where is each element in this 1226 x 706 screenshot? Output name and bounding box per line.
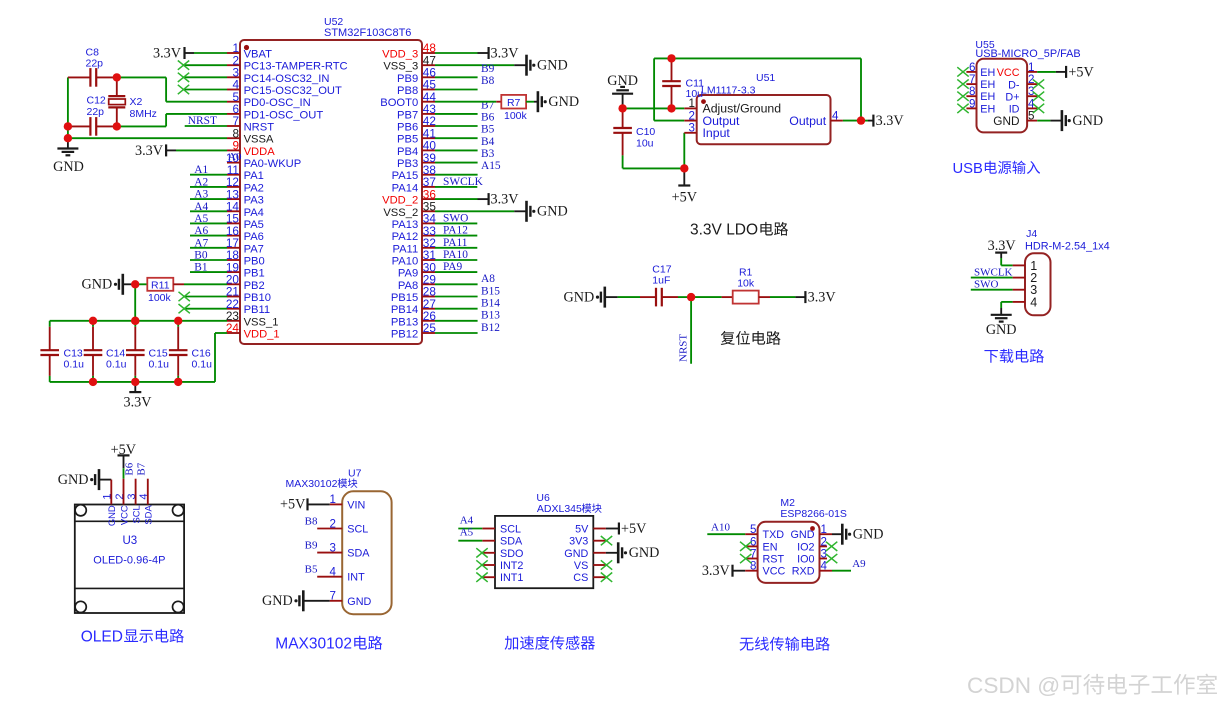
svg-text:PA4: PA4 xyxy=(244,207,264,219)
svg-text:SCL: SCL xyxy=(130,505,141,523)
svg-text:PB15: PB15 xyxy=(391,292,418,304)
svg-text:SWCLK: SWCLK xyxy=(974,266,1013,278)
svg-text:10k: 10k xyxy=(737,278,755,290)
svg-text:M2: M2 xyxy=(780,497,795,509)
svg-text:J4: J4 xyxy=(1026,228,1037,240)
svg-text:PA10: PA10 xyxy=(392,256,419,268)
svg-text:PA11: PA11 xyxy=(392,243,418,255)
svg-text:MAX30102: MAX30102 xyxy=(286,478,338,490)
svg-text:PA1: PA1 xyxy=(244,170,264,182)
svg-text:SDA: SDA xyxy=(500,536,523,548)
svg-text:A3: A3 xyxy=(194,189,208,201)
svg-text:C13: C13 xyxy=(64,347,83,359)
svg-text:GND: GND xyxy=(82,277,113,293)
svg-text:D+: D+ xyxy=(1005,91,1019,103)
svg-text:22p: 22p xyxy=(87,106,105,118)
svg-text:0.1u: 0.1u xyxy=(192,359,213,371)
svg-text:3.3V: 3.3V xyxy=(808,290,837,306)
svg-text:EN: EN xyxy=(763,541,778,553)
svg-text:B0: B0 xyxy=(194,250,208,262)
svg-text:PA2: PA2 xyxy=(244,182,264,194)
svg-text:CS: CS xyxy=(573,572,588,584)
svg-text:B8: B8 xyxy=(305,516,318,528)
svg-text:B5: B5 xyxy=(481,124,495,136)
svg-text:NRST: NRST xyxy=(244,122,275,134)
svg-text:A2: A2 xyxy=(194,176,208,188)
svg-text:PC14-OSC32_IN: PC14-OSC32_IN xyxy=(244,73,330,85)
svg-text:100k: 100k xyxy=(148,292,172,304)
svg-text:ESP8266-01S: ESP8266-01S xyxy=(780,508,847,520)
svg-text:B15: B15 xyxy=(481,285,500,297)
svg-text:USB-MICRO_5P/FAB: USB-MICRO_5P/FAB xyxy=(975,48,1080,60)
svg-text:B4: B4 xyxy=(481,136,495,148)
svg-text:B3: B3 xyxy=(481,148,495,160)
svg-text:B6: B6 xyxy=(123,462,135,475)
svg-text:GND: GND xyxy=(993,114,1019,128)
svg-text:LM1117-3.3: LM1117-3.3 xyxy=(701,85,756,97)
svg-text:SDA: SDA xyxy=(347,548,370,560)
svg-text:INT2: INT2 xyxy=(500,560,523,572)
svg-text:SWO: SWO xyxy=(443,212,468,224)
svg-text:Input: Input xyxy=(703,126,731,140)
svg-text:PA3: PA3 xyxy=(244,195,264,207)
svg-text:VDD_2: VDD_2 xyxy=(382,195,418,207)
svg-text:B14: B14 xyxy=(481,298,500,310)
svg-text:BOOT0: BOOT0 xyxy=(380,97,418,109)
svg-text:A0: A0 xyxy=(228,151,242,163)
svg-text:25: 25 xyxy=(423,321,437,335)
svg-text:GND: GND xyxy=(548,94,579,110)
svg-text:3.3V: 3.3V xyxy=(491,192,520,208)
svg-text:PB3: PB3 xyxy=(397,158,418,170)
svg-text:CSDN @: CSDN @ xyxy=(967,673,1060,698)
svg-text:PA10: PA10 xyxy=(443,249,468,261)
svg-text:PB9: PB9 xyxy=(397,73,418,85)
svg-text:PA9: PA9 xyxy=(443,261,463,273)
svg-text:PA12: PA12 xyxy=(443,225,468,237)
svg-text:PA6: PA6 xyxy=(244,231,264,243)
svg-text:7: 7 xyxy=(969,73,975,86)
svg-text:SWO: SWO xyxy=(974,279,999,291)
svg-text:PB2: PB2 xyxy=(244,280,265,292)
svg-text:GND: GND xyxy=(564,548,588,560)
svg-text:VDD_3: VDD_3 xyxy=(382,49,418,61)
svg-text:C14: C14 xyxy=(106,347,125,359)
svg-text:A6: A6 xyxy=(194,225,208,237)
svg-text:9: 9 xyxy=(969,97,975,110)
svg-text:GND: GND xyxy=(106,505,117,526)
svg-text:PB0: PB0 xyxy=(244,256,265,268)
svg-text:GND: GND xyxy=(1072,113,1103,129)
svg-text:IO0: IO0 xyxy=(797,554,814,566)
svg-text:PB11: PB11 xyxy=(244,304,271,316)
svg-text:PB5: PB5 xyxy=(397,134,418,146)
svg-text:B6: B6 xyxy=(481,112,495,124)
svg-text:PA14: PA14 xyxy=(392,182,419,194)
svg-text:C12: C12 xyxy=(87,94,106,106)
svg-text:PA5: PA5 xyxy=(244,219,264,231)
svg-text:GND: GND xyxy=(853,527,884,543)
svg-text:PB13: PB13 xyxy=(391,316,418,328)
svg-text:VBAT: VBAT xyxy=(244,49,273,61)
svg-text:NRST: NRST xyxy=(678,334,690,362)
svg-text:3.3V: 3.3V xyxy=(702,563,731,579)
svg-text:R7: R7 xyxy=(507,97,521,109)
svg-text:B13: B13 xyxy=(481,310,500,322)
svg-text:GND: GND xyxy=(537,204,568,220)
svg-text:HDR-M-2.54_1x4: HDR-M-2.54_1x4 xyxy=(1025,240,1110,252)
svg-text:SWCLK: SWCLK xyxy=(443,176,484,188)
svg-text:B9: B9 xyxy=(481,63,495,75)
svg-text:PB6: PB6 xyxy=(397,122,418,134)
svg-text:GND: GND xyxy=(347,596,371,608)
svg-text:VCC: VCC xyxy=(118,505,129,525)
svg-text:PA8: PA8 xyxy=(398,280,418,292)
svg-text:A4: A4 xyxy=(194,201,208,213)
svg-text:U51: U51 xyxy=(756,72,775,84)
svg-text:SDO: SDO xyxy=(500,548,523,560)
svg-text:VS: VS xyxy=(574,560,588,572)
svg-text:B7: B7 xyxy=(136,462,148,475)
svg-text:B12: B12 xyxy=(481,322,500,334)
svg-text:B1: B1 xyxy=(194,262,208,274)
svg-text:B8: B8 xyxy=(481,75,495,87)
svg-text:SDA: SDA xyxy=(143,505,154,525)
svg-text:VDD_1: VDD_1 xyxy=(244,329,280,341)
svg-text:A4: A4 xyxy=(460,515,474,527)
svg-text:PD0-OSC_IN: PD0-OSC_IN xyxy=(244,97,311,109)
svg-text:10u: 10u xyxy=(686,88,704,100)
svg-text:U52: U52 xyxy=(324,16,343,28)
svg-text:USB: USB xyxy=(953,161,984,177)
svg-text:5V: 5V xyxy=(575,524,589,536)
svg-text:0.1u: 0.1u xyxy=(64,359,85,371)
svg-text:3.3V LDO: 3.3V LDO xyxy=(690,222,758,239)
svg-text:GND: GND xyxy=(629,545,660,561)
svg-text:+5V: +5V xyxy=(1068,64,1094,80)
svg-text:SCL: SCL xyxy=(347,524,368,536)
svg-text:PB12: PB12 xyxy=(391,329,418,341)
svg-text:VSS_2: VSS_2 xyxy=(383,207,418,219)
svg-text:MAX30102: MAX30102 xyxy=(275,636,352,653)
svg-text:B9: B9 xyxy=(305,540,318,552)
svg-text:3.3V: 3.3V xyxy=(135,143,164,159)
svg-text:24: 24 xyxy=(226,321,240,335)
svg-text:+5V: +5V xyxy=(621,521,647,537)
svg-text:A5: A5 xyxy=(194,213,208,225)
svg-text:22p: 22p xyxy=(86,58,104,70)
svg-text:PC13-TAMPER-RTC: PC13-TAMPER-RTC xyxy=(244,61,348,73)
svg-text:PA7: PA7 xyxy=(244,243,264,255)
svg-text:3.3V: 3.3V xyxy=(988,238,1017,254)
svg-text:3.3V: 3.3V xyxy=(153,46,182,62)
svg-text:D-: D- xyxy=(1008,79,1020,91)
svg-text:4: 4 xyxy=(1030,295,1037,309)
svg-text:8: 8 xyxy=(969,85,975,98)
svg-text:A9: A9 xyxy=(852,558,866,570)
svg-text:GND: GND xyxy=(537,58,568,74)
svg-text:A5: A5 xyxy=(460,527,474,539)
svg-text:VSSA: VSSA xyxy=(244,134,274,146)
svg-text:B5: B5 xyxy=(305,564,318,576)
svg-text:C15: C15 xyxy=(149,347,168,359)
svg-text:PA12: PA12 xyxy=(392,231,419,243)
svg-text:GND: GND xyxy=(53,159,84,175)
svg-text:EH: EH xyxy=(980,91,995,103)
svg-text:VCC: VCC xyxy=(997,67,1020,79)
svg-text:INT1: INT1 xyxy=(500,572,523,584)
svg-text:GND: GND xyxy=(58,472,89,488)
svg-text:0.1u: 0.1u xyxy=(106,359,127,371)
svg-text:PB1: PB1 xyxy=(244,268,265,280)
svg-text:NRST: NRST xyxy=(188,115,217,127)
svg-text:X2: X2 xyxy=(130,96,143,108)
svg-text:C10: C10 xyxy=(636,126,655,138)
svg-text:3.3V: 3.3V xyxy=(491,46,520,62)
svg-text:PB10: PB10 xyxy=(244,292,271,304)
svg-text:A10: A10 xyxy=(711,522,730,534)
svg-text:INT: INT xyxy=(347,572,365,584)
svg-text:TXD: TXD xyxy=(763,529,785,541)
svg-text:3.3V: 3.3V xyxy=(876,113,905,129)
svg-text:VSS_1: VSS_1 xyxy=(244,316,279,328)
svg-text:OLED: OLED xyxy=(81,629,123,646)
svg-text:100k: 100k xyxy=(504,110,528,122)
svg-text:VDDA: VDDA xyxy=(244,146,276,158)
svg-text:+5V: +5V xyxy=(280,497,306,513)
svg-text:GND: GND xyxy=(262,593,293,609)
svg-text:EH: EH xyxy=(980,67,995,79)
svg-text:PA15: PA15 xyxy=(392,170,419,182)
svg-text:PD1-OSC_OUT: PD1-OSC_OUT xyxy=(244,109,324,121)
svg-text:A1: A1 xyxy=(194,164,208,176)
svg-text:GND: GND xyxy=(986,322,1017,338)
svg-text:PB4: PB4 xyxy=(397,146,418,158)
svg-text:VIN: VIN xyxy=(347,499,365,511)
svg-text:U3: U3 xyxy=(122,535,137,547)
svg-text:1uF: 1uF xyxy=(652,274,670,286)
svg-text:ADXL345: ADXL345 xyxy=(537,503,582,515)
svg-text:OLED-0.96-4P: OLED-0.96-4P xyxy=(93,554,165,566)
svg-text:R11: R11 xyxy=(151,279,170,291)
svg-text:PA13: PA13 xyxy=(392,219,419,231)
svg-text:10u: 10u xyxy=(636,137,654,149)
svg-text:A8: A8 xyxy=(481,273,495,285)
svg-text:PB14: PB14 xyxy=(391,304,418,316)
svg-text:PA0-WKUP: PA0-WKUP xyxy=(244,158,302,170)
svg-text:RXD: RXD xyxy=(792,566,815,578)
svg-text:6: 6 xyxy=(969,61,975,74)
svg-text:8MHz: 8MHz xyxy=(130,108,157,120)
svg-text:SCL: SCL xyxy=(500,524,521,536)
svg-text:C16: C16 xyxy=(192,347,211,359)
svg-text:0.1u: 0.1u xyxy=(149,359,170,371)
svg-text:+5V: +5V xyxy=(672,190,698,206)
svg-text:VSS_3: VSS_3 xyxy=(383,61,418,73)
svg-text:GND: GND xyxy=(564,290,595,306)
svg-text:Output: Output xyxy=(789,114,826,128)
svg-text:PC15-OSC32_OUT: PC15-OSC32_OUT xyxy=(244,85,342,97)
svg-text:RST: RST xyxy=(763,554,785,566)
svg-text:A7: A7 xyxy=(194,237,208,249)
svg-text:3V3: 3V3 xyxy=(569,536,588,548)
svg-text:EH: EH xyxy=(980,79,995,91)
svg-text:VCC: VCC xyxy=(763,566,786,578)
svg-text:A15: A15 xyxy=(481,160,501,172)
svg-text:U7: U7 xyxy=(348,468,362,480)
svg-text:STM32F103C8T6: STM32F103C8T6 xyxy=(324,27,411,39)
svg-text:3.3V: 3.3V xyxy=(124,395,153,411)
svg-text:IO2: IO2 xyxy=(797,541,814,553)
svg-text:PB7: PB7 xyxy=(397,109,418,121)
svg-text:GND: GND xyxy=(791,529,815,541)
svg-text:PA9: PA9 xyxy=(398,268,418,280)
svg-text:PB8: PB8 xyxy=(397,85,418,97)
svg-text:PA11: PA11 xyxy=(443,237,468,249)
